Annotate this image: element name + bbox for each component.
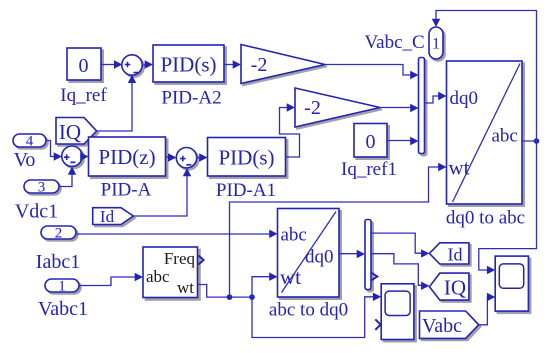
scope SC2 (495, 256, 530, 313)
svg-text:dq0: dq0 (305, 247, 334, 268)
From tag IQ (56, 118, 99, 147)
svg-text:PID(z): PID(z) (98, 145, 155, 169)
subsystem dq0 to abc (446, 61, 525, 229)
wire 0 to sum S1 (101, 60, 122, 68)
wire PID-A1 to gain G2 (280, 103, 300, 157)
svg-text:-2: -2 (251, 54, 268, 76)
svg-text:Iq_ref1: Iq_ref1 (341, 159, 397, 180)
wire G1 to mux M1 input1 (325, 65, 419, 80)
svg-text:PID(s): PID(s) (161, 53, 217, 77)
input port 2 (Iabc1) (36, 226, 80, 274)
svg-text:Iq_ref: Iq_ref (60, 85, 107, 106)
constant block 0 (Iq_ref1) (341, 124, 397, 181)
svg-text:PID-A: PID-A (101, 180, 152, 201)
svg-text:Iabc1: Iabc1 (36, 251, 80, 273)
constant block 0 (Iq_ref) (60, 48, 107, 106)
PID controller PID-A2 (153, 45, 226, 109)
svg-text:abc to dq0: abc to dq0 (269, 300, 348, 321)
wire port2 to abc port of abc-to-dq0 (76, 230, 278, 238)
svg-text:Freq: Freq (164, 249, 196, 268)
svg-text:dq0: dq0 (450, 88, 479, 109)
input port 4 (Vo) (13, 134, 48, 172)
svg-text:wt: wt (280, 265, 301, 289)
wire Freq wt output with junctions (198, 285, 255, 300)
wire port4 to sum S2 (46, 141, 62, 161)
svg-text:0: 0 (79, 55, 89, 77)
svg-text:Vdc1: Vdc1 (15, 201, 58, 223)
svg-text:-2: -2 (304, 97, 321, 119)
gain G1 (-2) (241, 45, 327, 86)
gain G2 (-2) (295, 88, 382, 129)
wire IQ to sum S1 bottom (97, 75, 137, 131)
svg-text:IQ: IQ (444, 276, 466, 300)
unconnected scope SC1 input2 chevron (375, 319, 380, 330)
wire abc output loop to port 1 (432, 11, 540, 144)
unconnected Freq output chevron (199, 256, 204, 265)
wire G2 to mux M1 input2 (380, 104, 419, 112)
PID controller PID-A (89, 137, 168, 201)
unconnected demux out3 chevron (372, 273, 378, 280)
wire S2 to PID-A (80, 152, 88, 160)
svg-text:Id: Id (100, 207, 115, 226)
wire M1 to dq0 port of dq0-to-abc (425, 92, 447, 103)
svg-text:2: 2 (55, 226, 63, 242)
wire S3 to PID-A1 (197, 153, 208, 161)
Goto tag IQ (429, 273, 471, 302)
svg-text:wt: wt (177, 278, 194, 297)
svg-text:PID-A2: PID-A2 (161, 88, 221, 109)
svg-text:abc: abc (492, 126, 518, 147)
wire demux out1 to Goto Id (371, 233, 429, 258)
Goto tag Id (429, 243, 471, 266)
svg-text:PID-A1: PID-A1 (216, 180, 276, 201)
svg-text:abc: abc (146, 267, 170, 286)
mux M1 (419, 58, 427, 156)
From tag Vabc (420, 311, 481, 340)
Freq measurement block (143, 247, 200, 300)
svg-text:1: 1 (58, 279, 66, 295)
svg-text:0: 0 (366, 131, 376, 153)
wire demux out2 to Goto IQ (371, 254, 429, 290)
PID controller PID-A1 (208, 138, 288, 202)
From tag Id (93, 207, 136, 227)
input port 1 (Vabc1) (38, 279, 88, 321)
wire port3 to sum S2 bottom (59, 167, 76, 187)
input port 3 (Vdc1) (15, 180, 61, 223)
svg-text:1: 1 (432, 36, 440, 53)
wire abc output down to scope SC2 input1 (479, 141, 537, 274)
svg-text:Vo: Vo (14, 149, 36, 171)
wire port1 to abc port of Freq block (79, 273, 143, 286)
sum S1 (122, 55, 144, 77)
wire S1 to PID-A2 (142, 60, 153, 68)
svg-text:Vabc: Vabc (422, 315, 462, 337)
wire PID-A to sum S3 (166, 153, 177, 161)
wire Id to sum S3 bottom (133, 168, 191, 216)
svg-text:PID(s): PID(s) (219, 146, 275, 170)
wire Vabc to scope SC2 input2 (479, 293, 496, 325)
svg-text:Id: Id (448, 245, 463, 265)
svg-text:4: 4 (26, 134, 34, 150)
svg-text:wt: wt (449, 156, 470, 180)
wire PID-A2 to gain G1 (224, 60, 241, 68)
svg-text:Vabc_C: Vabc_C (365, 32, 425, 53)
wire Iq_ref1 to mux M1 input3 (387, 137, 419, 145)
wire junction J2 up to wt port of abc-to-dq0 (252, 273, 278, 298)
subsystem abc to dq0 (269, 209, 348, 321)
wire junction J2 down to scope SC1 input1 (252, 293, 381, 338)
svg-text:3: 3 (38, 180, 46, 196)
output port 1 (Vabc_C) (365, 27, 445, 61)
sum S3 (176, 148, 198, 170)
svg-text:dq0 to abc: dq0 to abc (446, 208, 525, 229)
demux D1 (365, 220, 373, 292)
scope SC1 (381, 284, 416, 342)
svg-text:Vabc1: Vabc1 (38, 298, 88, 320)
sum S2 (62, 146, 84, 168)
wire junction J1 up to wt port of dq0-to-abc (230, 163, 447, 297)
svg-text:IQ: IQ (59, 120, 81, 144)
svg-text:abc: abc (281, 225, 307, 246)
wire abc-to-dq0 output to demux D1 (339, 250, 365, 258)
